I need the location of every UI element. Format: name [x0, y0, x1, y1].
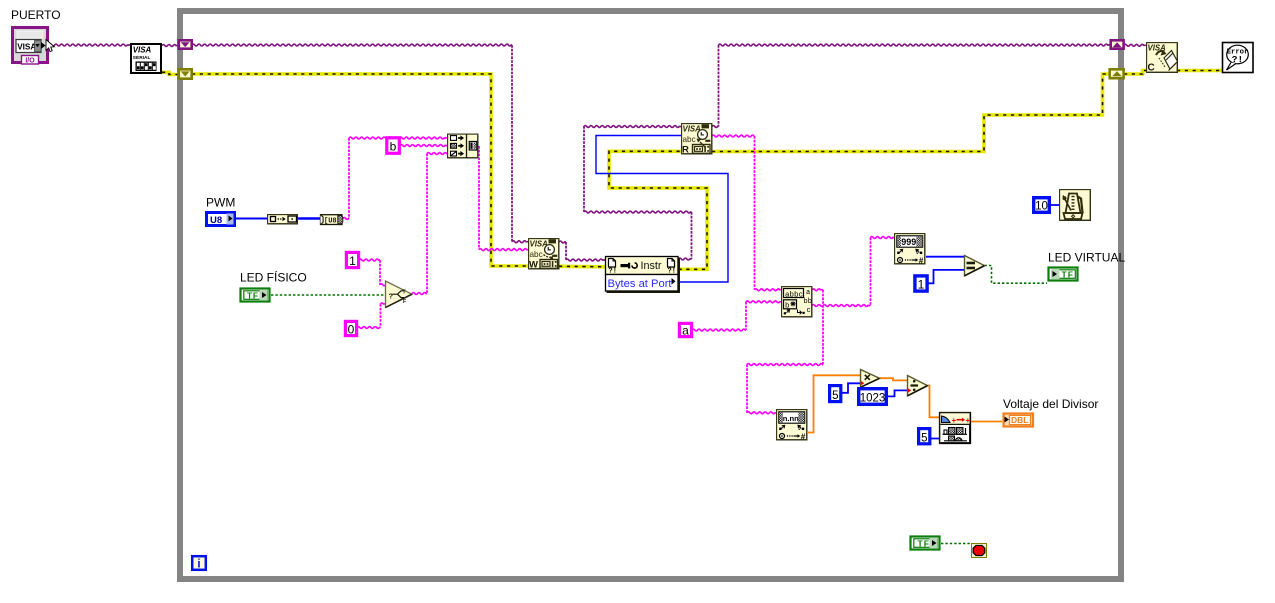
svg-text:1023: 1023 [860, 392, 886, 404]
svg-text:Bytes at Port: Bytes at Port [608, 278, 673, 290]
svg-text:?!: ?! [1232, 54, 1243, 65]
wire I32: Decimal String To Number to Equal [926, 256, 964, 258]
Decimal String To Number [895, 234, 925, 266]
svg-text:?!: ?! [668, 268, 676, 276]
svg-text:5: 5 [832, 390, 838, 402]
svg-text:1: 1 [349, 254, 356, 268]
Match Pattern [782, 287, 812, 317]
wire VISA: VISA Write to property node [559, 241, 605, 261]
Multiply function [861, 370, 880, 388]
string constant 0 (select false) [345, 321, 356, 336]
wire string: Select to Concatenate row3 [412, 153, 447, 295]
wire string: Concatenate to VISA Write [479, 146, 528, 251]
svg-text:0: 0 [348, 322, 355, 336]
wire error: VISA SERIAL to left tunnel [162, 72, 178, 74]
wire DBL: Number To Fractional String to indicator [971, 421, 1002, 423]
svg-text:?: ? [389, 292, 394, 301]
svg-text:#: # [919, 256, 924, 265]
svg-text:VISA: VISA [17, 42, 36, 51]
VISA Read [682, 124, 712, 156]
wire string: Byte Array To String to Concatenate row1 [343, 137, 447, 219]
svg-text:R: R [682, 145, 689, 156]
numeric constant 10 [1034, 198, 1050, 213]
label PUERTO [11, 8, 61, 22]
wire bool: TF constant to loop stop [941, 543, 971, 545]
wire DBL: Divide to Number To Fractional String [928, 386, 940, 418]
wire U8 array: Build Array to Byte Array To String [298, 217, 320, 220]
right shift register error [1110, 69, 1124, 78]
svg-text:LED VIRTUAL: LED VIRTUAL [1048, 251, 1125, 265]
svg-text:SERIAL: SERIAL [133, 55, 151, 61]
VISA Write [529, 239, 559, 271]
wire I32: Bytes at Port to VISA Read count [596, 136, 728, 283]
numeric constant 5 (precision) [919, 429, 930, 445]
label LED FISICO [240, 270, 307, 285]
boolean indicator LED VIRTUAL [1049, 268, 1078, 281]
while loop frame [180, 11, 1121, 579]
wire DBL: Multiply to Divide [880, 378, 907, 380]
wire bool: Equal to LED VIRTUAL [985, 266, 1048, 284]
Equal? function [965, 256, 985, 276]
svg-text:TF: TF [247, 291, 259, 301]
label Voltaje del Divisor [1003, 397, 1098, 411]
VISA resource control PUERTO [13, 28, 55, 65]
svg-text:a: a [682, 323, 689, 337]
left shift register VISA [179, 40, 192, 48]
svg-text:Instr: Instr [641, 260, 662, 272]
numeric control PWM U8 [207, 213, 235, 227]
right shift register VISA [1111, 40, 1124, 48]
svg-text:b: b [390, 140, 397, 154]
VISA Close [1147, 43, 1178, 74]
svg-text:abc: abc [530, 250, 543, 259]
loop condition stop terminal [972, 544, 987, 558]
svg-text:?!: ?! [609, 268, 617, 276]
svg-text:PUERTO: PUERTO [11, 8, 61, 22]
wire VISA: VISA Read to right shift register [712, 44, 1110, 127]
svg-text:abbc: abbc [785, 291, 803, 299]
simple error handler Error?! [1223, 43, 1254, 73]
svg-text:c: c [807, 307, 811, 315]
svg-text:W: W [529, 260, 538, 271]
svg-text:VISA: VISA [133, 46, 152, 55]
wire error: VISA Close to error handler [1177, 69, 1222, 73]
svg-text:i: i [197, 559, 200, 571]
wire I32: constant 5 to Multiply [841, 383, 860, 393]
Concatenate Strings [448, 134, 478, 158]
svg-text:PWM: PWM [206, 196, 235, 210]
wire U8: PWM to Build Array [236, 218, 267, 220]
Build Array [268, 215, 298, 224]
wire string: constant b to Concatenate row2 [400, 145, 447, 147]
wire I32: constant 10 to Wait ms [1051, 204, 1059, 206]
wire error: VISA Write to property node [559, 264, 605, 268]
svg-text:n.nn: n.nn [783, 414, 799, 423]
label LED VIRTUAL [1048, 251, 1125, 265]
svg-text:Voltaje del Divisor: Voltaje del Divisor [1003, 397, 1098, 411]
numeric constant 1023 [859, 389, 887, 405]
svg-text:C: C [1148, 63, 1155, 74]
string constant b [387, 138, 400, 154]
wire string: VISA Read to Match Pattern [712, 135, 781, 291]
wire string: constant 0 to Select false input [357, 303, 386, 329]
svg-text:10: 10 [1035, 201, 1048, 213]
svg-text:#: # [801, 432, 806, 441]
wire DBL: Fract String To Number to Multiply [808, 375, 860, 432]
wire VISA: VISA SERIAL to left shift register [162, 45, 178, 47]
wire error: VISA Read to right shift register [712, 74, 1110, 152]
numeric constant 1 [915, 276, 927, 291]
wire VISA: right shift register to VISA Close [1124, 44, 1146, 46]
Divide function [908, 376, 928, 396]
wire string: Match Pattern a out to Fract String To Number [747, 289, 823, 414]
wire bool: LED FISICO to Select [271, 294, 385, 296]
wire I32: constant 1023 to Divide [888, 390, 907, 396]
svg-text:5: 5 [921, 432, 927, 444]
svg-text:1: 1 [918, 277, 925, 291]
svg-text:DBL: DBL [1011, 415, 1028, 425]
svg-text:LED FÍSICO: LED FÍSICO [240, 270, 307, 285]
iteration terminal i [192, 556, 206, 570]
svg-text:abc: abc [683, 135, 696, 144]
Fract/Exp String To Number [777, 410, 807, 442]
wire string: Match Pattern bb out to Decimal String To Number [812, 237, 894, 307]
Select function [386, 281, 413, 308]
Number To Fractional String [940, 413, 971, 444]
label PWM [206, 196, 235, 210]
svg-text:b: b [785, 303, 790, 311]
string constant a (regex) [679, 323, 691, 337]
wire I32: constant 1 to Equal [928, 270, 964, 283]
svg-text:+: + [952, 416, 957, 425]
wire error: right shift register to VISA Close [1124, 71, 1146, 75]
svg-text:I/O: I/O [25, 57, 35, 64]
numeric constant 5 (x1000 scale) [830, 386, 841, 402]
boolean constant TF (stop) [911, 537, 940, 550]
wire VISA: left shift register to VISA Write [192, 44, 528, 243]
Wait (ms) function [1060, 190, 1091, 221]
VISA Configure Serial Port [131, 44, 161, 73]
svg-text:999: 999 [901, 237, 916, 247]
property node Instr / Bytes at Port [606, 257, 680, 293]
string constant 1 (select true) [346, 252, 358, 267]
svg-text:+: + [966, 416, 971, 425]
wire VISA: PUERTO to VISA SERIAL [49, 44, 130, 46]
wire string: constant 1 to Select true input [359, 259, 386, 286]
wire error: left tunnel to VISA Write [192, 74, 528, 266]
numeric indicator DBL Voltaje del Divisor [1004, 414, 1034, 427]
wire error: property node to VISA Read [609, 151, 707, 269]
svg-text:TF: TF [1062, 270, 1074, 280]
wire VISA: property node to VISA Read [584, 126, 692, 260]
svg-text:U8: U8 [210, 215, 222, 226]
wire I32: constant 5 to Number To Fractional String [931, 438, 939, 440]
Byte Array To String [321, 215, 343, 226]
left shift register error [179, 69, 192, 78]
wire string: constant a to Match Pattern regex [692, 301, 781, 331]
boolean control LED FISICO [241, 289, 270, 302]
svg-text:a: a [806, 289, 810, 297]
svg-text:F: F [403, 299, 406, 305]
svg-text:bb: bb [804, 298, 812, 306]
svg-text:TF: TF [918, 539, 930, 549]
